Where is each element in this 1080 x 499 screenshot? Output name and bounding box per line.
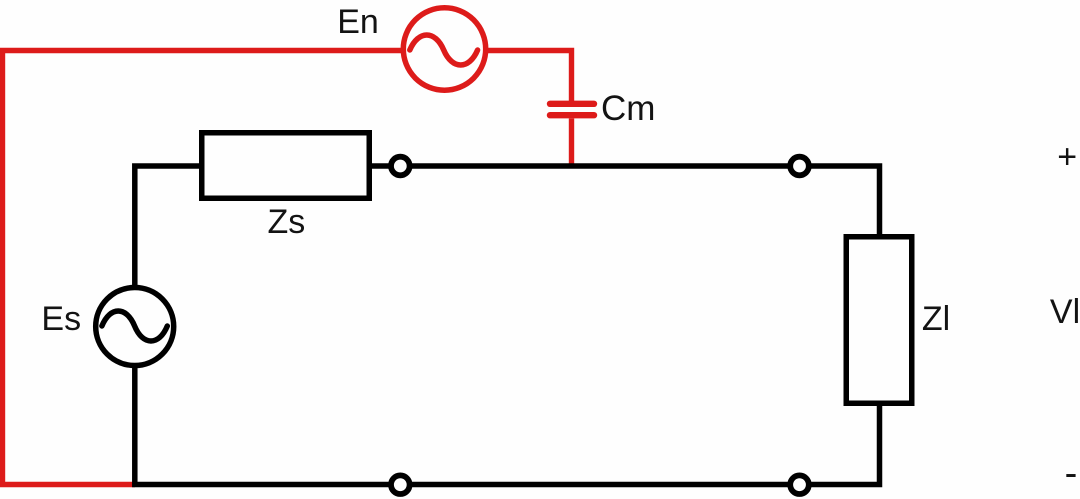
- svg-text:-: -: [1065, 452, 1078, 494]
- svg-text:Vl: Vl: [1050, 293, 1080, 331]
- svg-text:Zl: Zl: [922, 300, 950, 338]
- svg-text:+: +: [1057, 138, 1077, 176]
- svg-text:Cm: Cm: [601, 89, 655, 128]
- svg-text:Es: Es: [41, 300, 81, 338]
- svg-text:Zs: Zs: [268, 203, 306, 241]
- svg-text:En: En: [337, 3, 379, 41]
